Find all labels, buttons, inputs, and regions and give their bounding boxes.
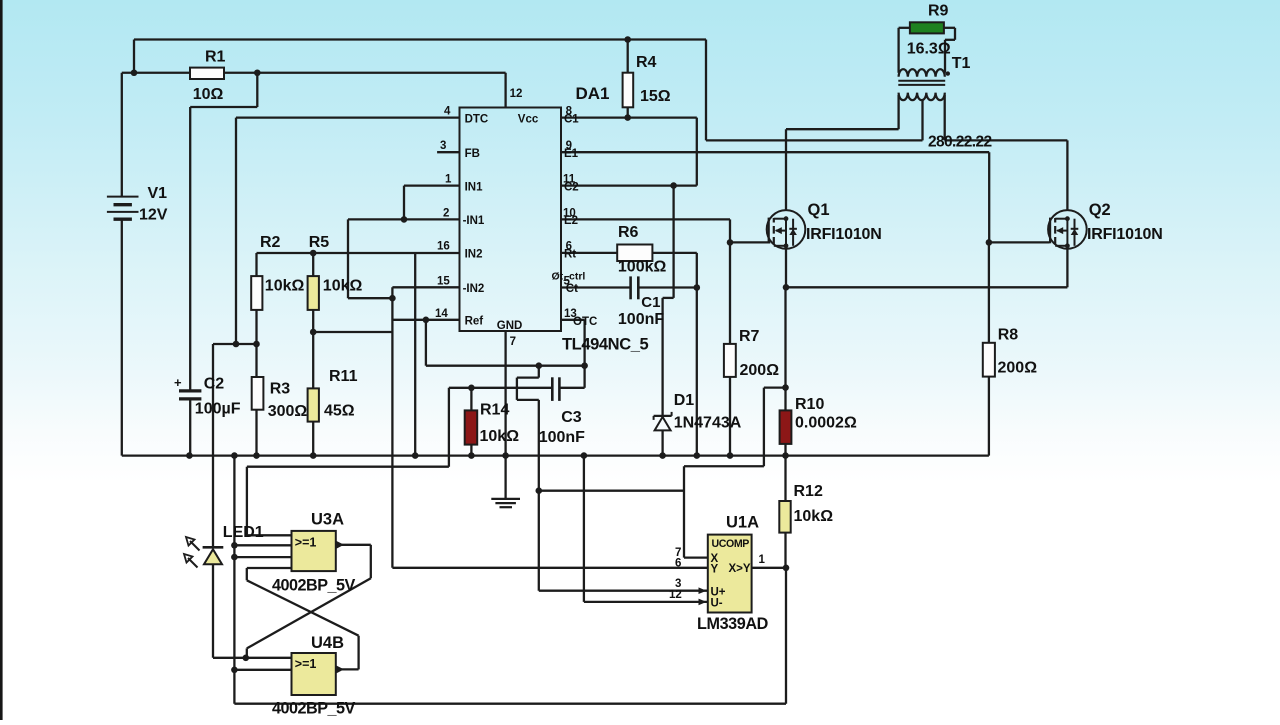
svg-text:Vcc: Vcc bbox=[518, 114, 539, 126]
junction (234.4,557.1) bbox=[231, 554, 238, 561]
wire bbox=[213, 343, 257, 345]
wire bbox=[357, 636, 359, 670]
wire bbox=[652, 252, 696, 254]
svg-text:Rt: Rt bbox=[564, 249, 576, 261]
wire U4B output bbox=[341, 668, 359, 670]
svg-text:C2: C2 bbox=[564, 181, 579, 193]
svg-text:Ct: Ct bbox=[566, 283, 578, 295]
svg-text:R7: R7 bbox=[739, 328, 760, 345]
svg-text:U3A: U3A bbox=[311, 511, 344, 529]
svg-text:R4: R4 bbox=[636, 54, 657, 71]
svg-text:Ref: Ref bbox=[465, 316, 484, 328]
LED LED1 bbox=[203, 546, 224, 549]
comparator U1A box bbox=[708, 535, 752, 613]
op-amp U? : IC DA1 TL494 box bbox=[460, 108, 562, 332]
wire bbox=[944, 40, 946, 73]
svg-text:LM339AD: LM339AD bbox=[697, 615, 769, 633]
wire R11 bottom bbox=[312, 422, 314, 456]
svg-text:7: 7 bbox=[510, 336, 516, 348]
svg-text:1: 1 bbox=[759, 554, 766, 566]
wire Q1 source bbox=[785, 248, 787, 287]
wire Q2 gate bbox=[989, 241, 1050, 243]
junction (627.7,39.5) bbox=[624, 36, 631, 43]
wire Q2 source bbox=[1066, 248, 1068, 287]
junction (245.8,657.8) bbox=[243, 655, 250, 662]
svg-text:100kΩ: 100kΩ bbox=[618, 259, 667, 276]
LED arrow bbox=[190, 541, 200, 551]
svg-text:45Ω: 45Ω bbox=[324, 403, 355, 420]
svg-text:U4B: U4B bbox=[311, 634, 344, 652]
svg-text:300Ω: 300Ω bbox=[268, 403, 308, 420]
wire R2 top bbox=[255, 253, 257, 276]
wire U4B in1 bbox=[246, 657, 292, 659]
resistor R1 body bbox=[190, 68, 224, 79]
wire pin15 -IN2 bbox=[392, 286, 459, 288]
svg-text:R2: R2 bbox=[260, 234, 281, 251]
transistor Q1 bbox=[767, 210, 806, 249]
svg-text:4002BP_5V: 4002BP_5V bbox=[272, 576, 356, 594]
wire bbox=[312, 253, 314, 276]
svg-text:>=1: >=1 bbox=[295, 657, 317, 671]
wire bbox=[661, 298, 663, 416]
wire bbox=[517, 376, 539, 378]
wire C3 left / R14 top row bbox=[449, 387, 552, 389]
svg-text:10kΩ: 10kΩ bbox=[794, 508, 834, 525]
svg-text:10kΩ: 10kΩ bbox=[480, 428, 520, 445]
junction (425.9,319.8) bbox=[423, 317, 430, 324]
svg-text:12V: 12V bbox=[139, 207, 168, 224]
wire pin11 C2 bbox=[561, 184, 697, 186]
wire R1 junction down bbox=[256, 73, 258, 107]
wire R7 top bbox=[729, 242, 731, 344]
wire Q1 drain bbox=[785, 129, 787, 210]
wire bottom return bbox=[234, 703, 786, 705]
svg-text:+: + bbox=[174, 375, 182, 390]
wire bbox=[638, 286, 697, 288]
wire R10 bottom bbox=[784, 444, 786, 456]
wire R14 bottom bbox=[470, 445, 472, 456]
transformer T1 phase dot bbox=[946, 71, 950, 75]
wire sense upper row bbox=[684, 465, 764, 467]
wire pin10 E2 bbox=[561, 218, 730, 220]
junction (696.8,287.5) bbox=[694, 284, 701, 291]
junction (471.4,387.8) bbox=[468, 385, 475, 392]
wire feedback row bbox=[247, 466, 449, 468]
wire bbox=[133, 40, 135, 73]
wire bbox=[370, 545, 372, 579]
wire U3A output bbox=[341, 544, 371, 546]
wire top +12V rail bbox=[134, 38, 706, 40]
junction (662.6,455.6) bbox=[659, 452, 666, 459]
gate U4B box bbox=[292, 653, 336, 695]
capacitor C3 bbox=[551, 377, 554, 401]
resistor R3 body bbox=[252, 377, 264, 410]
wire diagonal B bbox=[247, 578, 371, 648]
junction (988.9,242.4) bbox=[986, 239, 993, 246]
LED arrow bbox=[188, 558, 198, 568]
U1A input arrows bbox=[699, 587, 707, 594]
wire bbox=[696, 118, 698, 186]
wire to D1 bbox=[672, 186, 674, 298]
wire R9 left bbox=[899, 27, 910, 29]
svg-text:DTC: DTC bbox=[465, 114, 489, 126]
wire bbox=[313, 331, 392, 333]
junction (584.6,365.7) bbox=[581, 362, 588, 369]
wire bbox=[897, 28, 899, 73]
wire pin7 GND bbox=[504, 331, 506, 498]
junction (415.2,455.6) bbox=[412, 452, 419, 459]
svg-text:100nF: 100nF bbox=[618, 311, 664, 328]
svg-text:100nF: 100nF bbox=[539, 429, 585, 446]
wire secondary right bbox=[944, 95, 946, 140]
svg-text:12: 12 bbox=[669, 589, 682, 601]
wire R9 right bbox=[944, 27, 955, 29]
svg-text:IRFI1010N: IRFI1010N bbox=[806, 226, 882, 243]
wire bbox=[517, 399, 539, 401]
resistor R4 body bbox=[623, 73, 634, 108]
svg-text:4002BP_5V: 4002BP_5V bbox=[272, 700, 356, 718]
junction (392.4,298.2) bbox=[389, 295, 396, 302]
svg-text:DA1: DA1 bbox=[576, 84, 610, 103]
junction (234.4,455.6) bbox=[231, 452, 238, 459]
svg-text:0.0002Ω: 0.0002Ω bbox=[795, 415, 857, 432]
svg-text:6: 6 bbox=[675, 557, 681, 569]
svg-text:Øt_ctrl: Øt_ctrl bbox=[552, 271, 586, 283]
wire U3A in1 bbox=[247, 534, 292, 536]
gate U3A box bbox=[292, 531, 336, 571]
resistor R14 body bbox=[465, 410, 478, 444]
wire pin3 FB stub bbox=[437, 151, 459, 153]
svg-text:Q2: Q2 bbox=[1089, 201, 1111, 219]
svg-text:R5: R5 bbox=[309, 234, 330, 251]
svg-text:C2: C2 bbox=[204, 376, 225, 393]
wire R7 bottom bbox=[729, 377, 731, 456]
wire U3A in4 bbox=[247, 567, 292, 569]
wire battery bottom lead bbox=[121, 219, 123, 455]
wire bottom common rail bbox=[122, 454, 989, 456]
wire bbox=[786, 128, 899, 130]
wire bbox=[190, 106, 257, 108]
svg-text:R9: R9 bbox=[928, 3, 949, 20]
wire pin6 Rt bbox=[561, 252, 617, 254]
wire mid vertical bbox=[391, 287, 393, 568]
svg-text:R3: R3 bbox=[270, 380, 291, 397]
wire pin13 OTC bbox=[561, 319, 585, 321]
wire bbox=[347, 219, 349, 298]
junction (256.5,455.6) bbox=[253, 452, 260, 459]
svg-text:U-: U- bbox=[711, 598, 723, 610]
resistor R6 body bbox=[617, 245, 652, 262]
svg-text:15: 15 bbox=[437, 275, 450, 287]
wire R14 top bbox=[470, 388, 472, 411]
wire bbox=[348, 297, 392, 299]
svg-text:280.22.22: 280.22.22 bbox=[928, 134, 992, 151]
wire R2 bottom through R3 bbox=[255, 310, 257, 456]
junction (538.8,365.7) bbox=[536, 362, 543, 369]
wire bbox=[559, 387, 584, 389]
junction (730,242.4) bbox=[727, 239, 734, 246]
svg-text:3: 3 bbox=[440, 140, 446, 152]
wire U1A U+ input bbox=[539, 590, 708, 592]
wire U1A Y input bbox=[392, 567, 707, 569]
wire U+ net jog bbox=[538, 366, 540, 378]
wire pin5 Ct bbox=[561, 286, 631, 288]
svg-text:C1: C1 bbox=[564, 114, 579, 126]
wire R2/R5 top row to pin16 bbox=[257, 252, 460, 254]
svg-text:14: 14 bbox=[435, 308, 448, 320]
resistor R8 body bbox=[983, 343, 995, 377]
svg-text:-IN1: -IN1 bbox=[463, 215, 485, 227]
svg-text:TL494NC_5: TL494NC_5 bbox=[562, 336, 648, 354]
wire center tap drop bbox=[705, 40, 707, 141]
wire bbox=[538, 400, 540, 591]
resistor R11 body bbox=[308, 388, 319, 421]
svg-text:C3: C3 bbox=[561, 409, 582, 426]
svg-text:4: 4 bbox=[444, 106, 451, 118]
wire U- from rail bbox=[583, 456, 585, 602]
resistor R10 body bbox=[780, 410, 792, 444]
junction (471.4,455.6) bbox=[468, 452, 475, 459]
wire Q2 drain bbox=[1066, 140, 1068, 210]
svg-text:U1A: U1A bbox=[726, 514, 759, 532]
wire bbox=[403, 186, 405, 220]
wire R12 top bbox=[784, 456, 786, 501]
wire bbox=[312, 310, 314, 332]
wire U4B in2 bbox=[234, 669, 291, 671]
svg-text:T1: T1 bbox=[952, 55, 971, 72]
wire battery+ to R1 row bbox=[122, 72, 257, 74]
wire pin14 Ref bbox=[392, 319, 459, 321]
svg-text:V1: V1 bbox=[148, 185, 168, 202]
svg-text:D1: D1 bbox=[674, 392, 695, 409]
wire pin2 -IN1 bbox=[348, 218, 460, 220]
wire bbox=[504, 73, 506, 108]
svg-text:-IN2: -IN2 bbox=[463, 283, 485, 295]
resistor R9 body bbox=[910, 22, 944, 33]
wire bbox=[425, 320, 427, 366]
wire R8 top bbox=[988, 242, 990, 342]
svg-text:E1: E1 bbox=[564, 148, 579, 160]
resistor R12 body bbox=[779, 501, 790, 533]
svg-text:10kΩ: 10kΩ bbox=[323, 278, 363, 295]
junction (786,287.3) bbox=[783, 284, 790, 291]
svg-text:Y: Y bbox=[711, 563, 719, 575]
wire left gate-input column bbox=[233, 456, 235, 704]
ground bbox=[491, 498, 520, 500]
svg-text:R8: R8 bbox=[998, 326, 1019, 343]
wire bbox=[706, 139, 923, 141]
wire diagonal A bbox=[247, 580, 359, 635]
wire R4 bottom bbox=[627, 107, 629, 117]
capacitor C1 bbox=[629, 276, 632, 299]
wire pin4 DTC bbox=[236, 116, 460, 118]
junction (234.4,545.3) bbox=[231, 542, 238, 549]
wire bbox=[448, 388, 450, 467]
junction (313.2,332) bbox=[310, 329, 317, 336]
svg-text:IN2: IN2 bbox=[465, 249, 483, 261]
junction (583.9,455.6) bbox=[581, 452, 588, 459]
svg-text:IRFI1010N: IRFI1010N bbox=[1087, 226, 1163, 243]
junction (257.3,72.75) bbox=[254, 69, 261, 76]
wire D1 bottom bbox=[661, 430, 663, 455]
resistor R7 body bbox=[724, 344, 736, 377]
wire battery top lead bbox=[121, 73, 123, 197]
wire sense row bbox=[539, 490, 684, 492]
wire U1A output bbox=[752, 567, 786, 569]
svg-text:R14: R14 bbox=[480, 402, 509, 419]
transistor Q2 bbox=[1048, 210, 1087, 249]
svg-text:R1: R1 bbox=[205, 49, 226, 66]
junction (234.4,669.8) bbox=[231, 667, 238, 674]
transformer T1 primary winding bbox=[899, 69, 945, 77]
junction (404,219.4) bbox=[401, 216, 408, 223]
wire to LED1 top bbox=[212, 344, 214, 547]
junction (627.7,117.6) bbox=[624, 114, 631, 121]
battery V1 bbox=[107, 196, 139, 198]
wire LED1 bottom bbox=[212, 564, 214, 657]
svg-text:IN1: IN1 bbox=[465, 181, 484, 193]
junction (313.2,253) bbox=[310, 250, 317, 257]
wire bbox=[945, 139, 1068, 141]
junction (673.6,185.6) bbox=[670, 182, 677, 189]
wire C2 bottom to rail bbox=[189, 399, 191, 456]
wire pin8 bbox=[561, 116, 697, 118]
wire Ref row bbox=[426, 365, 585, 367]
svg-text:UCOMP: UCOMP bbox=[712, 538, 750, 550]
svg-text:1: 1 bbox=[445, 174, 452, 186]
svg-text:100µF: 100µF bbox=[195, 401, 241, 418]
junction (696.8,455.6) bbox=[694, 452, 701, 459]
wire source row bbox=[786, 286, 1067, 288]
svg-text:LED1: LED1 bbox=[223, 524, 264, 541]
wire U1A X input bbox=[684, 556, 708, 558]
wire pin9 E1 long bbox=[561, 151, 989, 153]
capacitor C2 bbox=[179, 389, 201, 392]
svg-text:16: 16 bbox=[437, 241, 450, 253]
svg-text:200Ω: 200Ω bbox=[998, 359, 1038, 376]
svg-text:R11: R11 bbox=[329, 368, 358, 385]
svg-text:GND: GND bbox=[497, 320, 523, 332]
wire U3A in2 bbox=[234, 544, 291, 546]
wire bbox=[921, 99, 923, 140]
svg-text:12: 12 bbox=[510, 88, 523, 100]
wire bbox=[897, 95, 899, 129]
wire bbox=[764, 386, 786, 388]
junction (786,567.8) bbox=[783, 565, 790, 572]
junction (505.6,455.6) bbox=[502, 452, 509, 459]
wire bbox=[516, 378, 518, 400]
wire bbox=[583, 366, 585, 388]
wire R5 to R11 bbox=[312, 332, 314, 388]
wire pin1 IN1 bbox=[404, 184, 460, 186]
svg-text:E2: E2 bbox=[564, 215, 578, 227]
wire bbox=[784, 287, 786, 387]
wire bbox=[235, 118, 237, 344]
junction (785.5,387.6) bbox=[782, 384, 789, 391]
wire to C2 top bbox=[189, 107, 191, 391]
wire R10 top bbox=[784, 388, 786, 411]
resistor R5 body bbox=[308, 276, 319, 310]
wire pin16 to rail bbox=[414, 253, 416, 456]
svg-text:FB: FB bbox=[465, 148, 480, 160]
svg-text:200Ω: 200Ω bbox=[740, 362, 780, 379]
wire Ct column to rail bbox=[696, 253, 698, 456]
svg-text:OTC: OTC bbox=[573, 316, 597, 328]
svg-text:1N4743A: 1N4743A bbox=[674, 415, 742, 432]
svg-text:>=1: >=1 bbox=[295, 535, 317, 549]
wire R12 bottom bbox=[784, 533, 786, 568]
wire R4 top bbox=[627, 40, 629, 73]
svg-text:10Ω: 10Ω bbox=[193, 86, 224, 103]
junction (730,455.6) bbox=[727, 452, 734, 459]
wire bbox=[246, 568, 248, 580]
wire bbox=[945, 39, 955, 41]
wire bbox=[785, 568, 787, 704]
wire R1 to Vcc bbox=[257, 72, 505, 74]
junction (256.5,344) bbox=[253, 341, 260, 348]
svg-text:R12: R12 bbox=[794, 483, 823, 500]
svg-text:R6: R6 bbox=[618, 224, 639, 241]
junction (538.8,490.7) bbox=[536, 487, 543, 494]
resistor R2 body bbox=[251, 276, 262, 310]
wire Q1 gate bbox=[730, 241, 770, 243]
wire bbox=[763, 388, 765, 467]
wire bbox=[729, 219, 731, 242]
svg-text:X>Y: X>Y bbox=[729, 563, 751, 575]
svg-text:16.3Ω: 16.3Ω bbox=[907, 40, 951, 57]
wire bbox=[583, 320, 585, 366]
wire bbox=[954, 28, 956, 40]
junction (313.2,455.6) bbox=[310, 452, 317, 459]
svg-text:C1: C1 bbox=[641, 294, 660, 311]
svg-text:Q1: Q1 bbox=[808, 201, 830, 219]
wire bbox=[663, 297, 674, 299]
junction (134,72.75) bbox=[131, 69, 138, 76]
left video edge bar bbox=[0, 0, 3, 720]
svg-text:10kΩ: 10kΩ bbox=[265, 278, 305, 295]
junction (236,344) bbox=[233, 341, 240, 348]
wire bbox=[584, 601, 708, 603]
wire bbox=[246, 467, 248, 536]
junction (785.5,455.6) bbox=[782, 452, 789, 459]
svg-text:2: 2 bbox=[443, 207, 449, 219]
transformer T1 core bbox=[898, 80, 945, 82]
junction (189.4,455.6) bbox=[186, 452, 193, 459]
wire bbox=[213, 657, 246, 659]
wire bbox=[246, 648, 248, 657]
transformer T1 secondary winding bbox=[899, 93, 945, 101]
svg-text:R10: R10 bbox=[795, 396, 824, 413]
wire bbox=[988, 152, 990, 242]
svg-text:15Ω: 15Ω bbox=[640, 88, 671, 105]
wire U3A in3 bbox=[234, 556, 291, 558]
wire bbox=[683, 466, 685, 557]
zener diode D1 bbox=[654, 415, 672, 417]
wire R8 bottom bbox=[988, 377, 990, 456]
